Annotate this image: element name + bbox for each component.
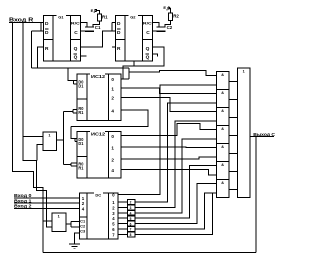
svg-text:C2: C2 [167,25,173,30]
svg-text:6: 6 [130,222,132,226]
wire U4 out1 [121,146,216,149]
svg-text:2: 2 [111,96,114,101]
wire long horizontal to counters [31,67,128,69]
wire U1 R stub [38,47,44,68]
svg-text:R1: R1 [78,165,84,170]
svg-text:R/C: R/C [143,21,152,26]
wire U2 C to C2 [153,30,157,32]
wire U4 R inputs [64,163,71,165]
gate outputs to OR [229,80,238,82]
wire V2 down-left [23,23,52,227]
gate E1 reset buffer [43,132,57,150]
svg-text:&: & [221,109,224,113]
svg-text:Q: Q [74,55,78,61]
svg-text:D1: D1 [78,83,84,88]
resistor R2 [169,13,173,20]
wire decoder out4 riser [135,166,217,219]
svg-text:1: 1 [58,215,60,219]
wire box2 input1 [43,220,52,222]
wire Vhod R to U1 D [9,22,41,24]
svg-text:C1: C1 [80,220,85,224]
wire decoder out7 riser [135,193,217,235]
svg-text:R: R [117,46,121,52]
wire U4 out0 [121,123,216,135]
wire U1 Q to U2 D [81,31,112,47]
wire U3 R inputs [64,110,73,112]
svg-text:7: 7 [130,228,132,232]
wire decoder out3 riser [135,139,217,213]
wire U3 clock node staircase [121,78,129,80]
svg-text:&: & [221,91,224,95]
ground [69,243,80,244]
wire U1 Qbar stub [81,55,87,57]
wire V1 down-left [13,23,43,253]
svg-text:1: 1 [48,134,50,138]
decoder output pin boxes [118,193,160,195]
wire U3 out2 [121,98,216,112]
wire ground lead [75,233,80,244]
wire decoder out5 riser [135,184,217,224]
wire decoder out2 riser [135,121,217,208]
svg-text:R1: R1 [78,110,84,115]
wire R1 to C1 [93,21,99,27]
resistor R1 [97,14,101,21]
svg-text:D: D [117,30,121,36]
capacitor C2 [157,26,166,27]
svg-text:ИС12: ИС12 [91,131,106,136]
svg-text:D: D [45,30,49,36]
svg-text:G1: G1 [58,14,64,19]
svg-text:ИС12: ИС12 [91,74,106,79]
wire U4 out2 [121,157,216,159]
capacitor C1 [85,26,94,27]
svg-text:4: 4 [130,212,132,216]
svg-text:&: & [221,73,224,77]
svg-text:Q: Q [74,46,78,52]
wire stub U2 bottom [133,61,135,66]
svg-text:C2: C2 [80,225,85,229]
svg-text:DC: DC [95,193,101,198]
svg-text:&: & [221,127,224,131]
svg-text:0: 0 [111,77,114,82]
one-shot U1 [43,15,80,61]
wire U3 out1 [121,88,216,94]
svg-text:8: 8 [130,233,132,237]
svg-text:4: 4 [111,108,114,113]
wire U2 R/C to C2 [153,23,159,27]
svg-text:C: C [74,30,78,36]
counter U3 [77,74,121,120]
svg-text:0: 0 [111,134,114,139]
wire decoder out1 riser [135,103,217,202]
wire U4 out4 [121,170,216,175]
wire U1 R/C to C1 [81,23,87,27]
gate E2 strobe buffer [52,213,66,232]
gate column U6 [216,72,229,198]
svg-text:2: 2 [130,201,132,205]
svg-text:5: 5 [130,217,132,221]
OR gate U7 [238,68,250,198]
wire U2 R stub [112,46,115,48]
wire U2 Q to U3 clock [123,47,164,79]
wire U1 C to C1 [81,30,85,32]
wire output down [255,137,257,253]
svg-text:2: 2 [111,157,114,162]
counter U4 [77,132,121,178]
decoder U5 DC [80,193,118,239]
svg-text:R2: R2 [173,14,179,19]
wire U3 out4 cascade to U4 [71,110,148,127]
svg-text:C3: C3 [80,229,85,233]
svg-text:R: R [45,46,49,52]
one-shot U2 [115,15,152,61]
wire box1 output [57,139,64,141]
wire box1 input1 [23,136,43,138]
svg-text:D: D [45,21,49,27]
svg-text:&: & [221,181,224,185]
svg-text:C1: C1 [95,25,101,30]
svg-text:D: D [117,21,121,27]
svg-text:R/C: R/C [71,21,80,26]
svg-text:&: & [221,145,224,149]
svg-text:1: 1 [111,145,114,150]
svg-text:3: 3 [130,206,132,210]
wire decoder out0 riser [118,85,216,195]
wire bottom return [43,251,256,253]
wire U3 D inputs [68,68,73,80]
wire U4 D inputs [71,127,75,139]
wire U1 D/Dbar tie [40,23,42,32]
wire box2 output [66,223,71,225]
svg-text:Q: Q [146,46,150,52]
wire U2 Qbar stub [153,54,158,57]
wire Dbar branch down [31,30,40,32]
wire box1 input2 [37,145,43,161]
svg-text:D1: D1 [78,141,84,146]
svg-text:C: C [146,30,150,36]
svg-text:1: 1 [243,69,245,73]
svg-text:&: & [221,163,224,167]
svg-text:G2: G2 [130,14,136,19]
svg-text:Вход 2: Вход 2 [14,204,32,209]
svg-text:R1: R1 [102,14,108,19]
wire decoder out6 riser [135,193,217,229]
wire R2 to C2 [165,20,171,26]
svg-text:4: 4 [111,168,114,173]
svg-text:Q: Q [146,55,150,61]
svg-text:1: 1 [111,86,114,91]
